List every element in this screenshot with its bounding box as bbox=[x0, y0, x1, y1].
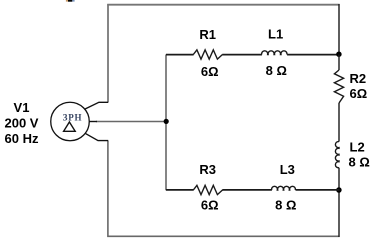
svg-text:L1: L1 bbox=[268, 27, 283, 42]
wire: bottom branch mid-node to R3 bbox=[166, 189, 194, 191]
wire: top rail bbox=[107, 4, 339, 6]
svg-text:R1: R1 bbox=[199, 27, 216, 42]
wire: bottom-left vertical + bottom rail (source bottom net) bbox=[108, 141, 340, 237]
svg-text:L3: L3 bbox=[280, 162, 295, 177]
label V1 200V 60Hz bbox=[5, 100, 39, 146]
svg-text:6Ω: 6Ω bbox=[350, 86, 368, 101]
clipped text fragment at top edge bbox=[66, 0, 75, 2]
svg-text:200 V: 200 V bbox=[5, 116, 39, 131]
wire: L2 to node B bbox=[338, 168, 340, 190]
resistor R2 bbox=[334, 70, 343, 103]
inductor L3 bbox=[272, 186, 296, 190]
svg-text:R2: R2 bbox=[350, 71, 367, 86]
wire: left vertical (source top net) bbox=[107, 4, 109, 102]
wire: middle vertical bus bbox=[165, 55, 167, 191]
svg-text:6Ω: 6Ω bbox=[201, 64, 219, 79]
wire: R1 to L1 bbox=[222, 54, 262, 56]
wire: R3 to L3 bbox=[222, 189, 272, 191]
mid node junction dot bbox=[164, 119, 169, 124]
wire: L1 to node A bbox=[287, 54, 340, 56]
svg-text:6Ω: 6Ω bbox=[201, 198, 219, 213]
svg-text:8 Ω: 8 Ω bbox=[349, 155, 370, 170]
inductor L2 bbox=[335, 142, 339, 168]
wire: top-right drop to node A bbox=[338, 4, 340, 54]
wire: L3 to node B bbox=[296, 189, 340, 191]
svg-text:8 Ω: 8 Ω bbox=[275, 198, 296, 213]
resistor R1 bbox=[193, 50, 222, 59]
svg-text:V1: V1 bbox=[14, 100, 30, 115]
voltage source V1 (3-phase) bbox=[51, 102, 108, 141]
wire: node A to R2 bbox=[338, 54, 340, 70]
wire: R2 to L2 bbox=[338, 103, 340, 142]
svg-text:L2: L2 bbox=[350, 140, 365, 155]
svg-text:R3: R3 bbox=[199, 162, 216, 177]
resistor R3 bbox=[193, 185, 222, 194]
inductor L1 bbox=[262, 51, 287, 55]
svg-text:60 Hz: 60 Hz bbox=[5, 131, 39, 146]
wire: top branch segment mid-node to R1 bbox=[166, 54, 194, 56]
wire: bottom-right riser to node B bbox=[338, 190, 340, 237]
node B junction dot bbox=[336, 187, 342, 193]
svg-text:8 Ω: 8 Ω bbox=[266, 63, 287, 78]
wire: source middle output to mid node bbox=[96, 121, 166, 123]
node A junction dot bbox=[336, 51, 342, 57]
svg-text:3PH: 3PH bbox=[63, 113, 82, 124]
